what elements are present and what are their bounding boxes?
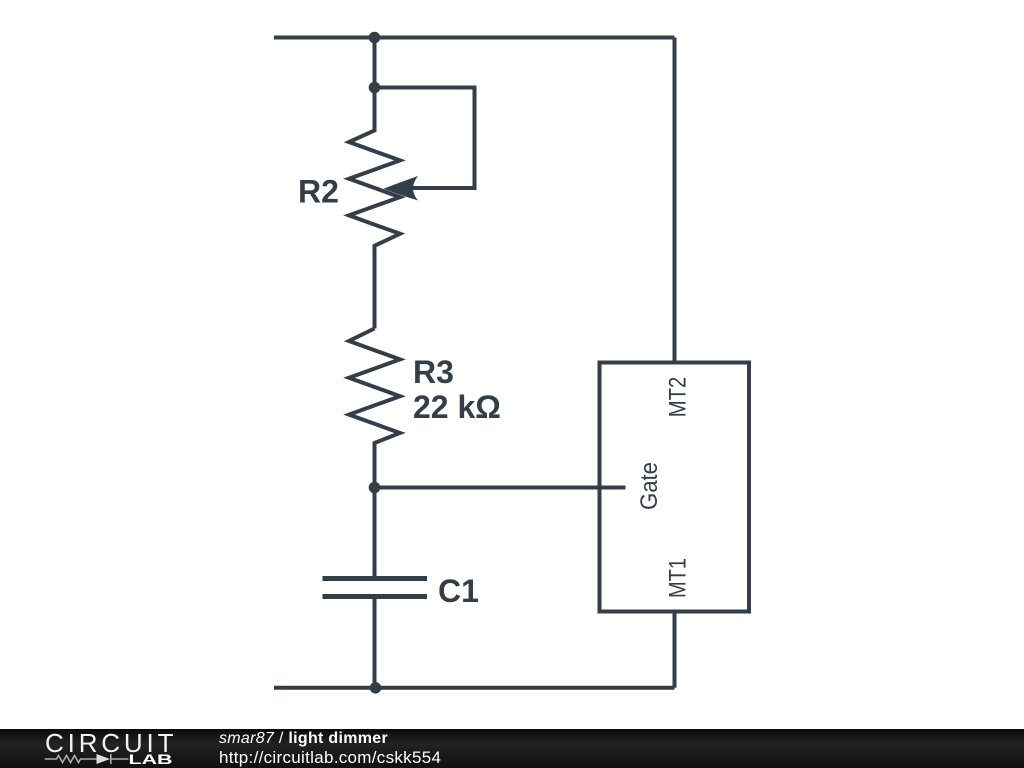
node bottom junction — [370, 682, 382, 694]
wire top rail — [274, 36, 675, 40]
footer title text — [219, 731, 388, 747]
logo resistor-diode glyph — [45, 754, 129, 764]
wire gate horizontal — [375, 486, 626, 490]
node top junction — [369, 32, 381, 44]
CircuitLab logo — [0, 729, 190, 768]
svg-text:LAB: LAB — [129, 751, 173, 767]
potentiometer R2 zigzag body — [349, 88, 400, 329]
svg-text:C1: C1 — [438, 573, 479, 609]
svg-text:R2: R2 — [298, 173, 339, 209]
wire top node to wiper tap node — [373, 38, 377, 88]
wire wiper loop — [375, 88, 475, 189]
capacitor C1 bottom plate — [323, 594, 428, 599]
footer url text — [219, 749, 441, 766]
node gate junction — [369, 482, 381, 494]
wire bottom rail — [274, 686, 675, 690]
svg-text:Gate: Gate — [636, 462, 663, 510]
potentiometer R2 wiper arrow — [384, 176, 419, 201]
footer bar — [0, 729, 1024, 768]
svg-text:MT2: MT2 — [665, 377, 692, 418]
capacitor C1 top plate — [323, 576, 428, 581]
wire gate node down to C1 — [373, 488, 377, 579]
svg-text:MT1: MT1 — [665, 558, 692, 598]
resistor R3 zigzag body — [349, 329, 400, 488]
svg-text:22 kΩ: 22 kΩ — [413, 389, 501, 425]
wire MT1 pin to bottom rail — [673, 612, 677, 688]
triac block body — [600, 363, 750, 612]
wire C1 to bottom rail — [373, 597, 377, 688]
svg-text:R3: R3 — [413, 354, 454, 390]
wire right rail down to MT2 pin — [673, 38, 677, 363]
node wiper tap junction — [369, 82, 381, 94]
